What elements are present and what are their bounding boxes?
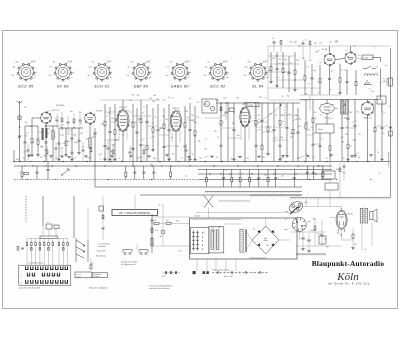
AM antenna transformer box xyxy=(202,99,217,113)
speaker xyxy=(370,209,378,222)
svg-text:2k: 2k xyxy=(142,113,144,115)
string x382 xyxy=(381,100,383,128)
svg-text:30k: 30k xyxy=(86,139,89,141)
svg-text:automatik: automatik xyxy=(98,245,105,248)
cluster labels xyxy=(96,243,111,258)
string x280 xyxy=(279,103,281,121)
svg-text:1k: 1k xyxy=(47,133,49,135)
svg-text:1k: 1k xyxy=(217,137,219,139)
svg-text:Einstellrad: Einstellrad xyxy=(97,250,105,253)
pins oval1 xyxy=(118,130,120,140)
string x287 xyxy=(286,103,288,128)
mid band link wires xyxy=(104,112,382,146)
string x375 xyxy=(374,100,376,128)
svg-text:50p: 50p xyxy=(67,133,70,135)
svg-text:1n: 1n xyxy=(369,89,371,91)
crossing wires to lower section xyxy=(204,196,213,208)
svg-text:10n: 10n xyxy=(50,67,53,69)
svg-text:0,05: 0,05 xyxy=(266,77,269,79)
svg-text:50: 50 xyxy=(181,158,183,160)
svg-text:0,02: 0,02 xyxy=(223,98,226,100)
svg-text:20k: 20k xyxy=(349,112,352,114)
svg-text:0,02: 0,02 xyxy=(222,115,225,117)
svg-text:15p: 15p xyxy=(358,157,361,159)
svg-text:300: 300 xyxy=(79,112,82,114)
svg-text:20k: 20k xyxy=(296,60,299,62)
svg-text:0,1μF: 0,1μF xyxy=(68,61,72,63)
svg-text:8,2k: 8,2k xyxy=(34,72,37,74)
svg-text:30k: 30k xyxy=(340,235,343,237)
svg-text:25p: 25p xyxy=(111,118,114,120)
svg-text:15p: 15p xyxy=(188,72,191,74)
filler strings between buses xyxy=(125,166,324,187)
svg-text:0,02: 0,02 xyxy=(63,143,66,145)
svg-text:5k: 5k xyxy=(188,77,190,79)
svg-text:EABC 80: EABC 80 xyxy=(171,84,189,88)
svg-text:5k: 5k xyxy=(274,141,276,143)
jack xyxy=(364,80,372,85)
svg-text:3n: 3n xyxy=(176,114,178,116)
wire v x74 xyxy=(73,196,75,238)
svg-text:0,5: 0,5 xyxy=(82,147,84,149)
svg-text:50p: 50p xyxy=(232,123,235,125)
svg-text:8,2k: 8,2k xyxy=(60,148,63,150)
wire bus y169 right xyxy=(198,169,332,171)
svg-text:2k: 2k xyxy=(296,115,298,117)
string R2 xyxy=(37,126,39,140)
svg-text:10n: 10n xyxy=(281,175,284,177)
junction dots xyxy=(19,161,368,175)
svg-text:zwischen Punkt und Masse: zwischen Punkt und Masse xyxy=(149,287,170,290)
coil L1 xyxy=(52,131,54,139)
svg-text:0,05: 0,05 xyxy=(52,136,55,138)
svg-text:0,1: 0,1 xyxy=(305,39,307,41)
svg-text:300: 300 xyxy=(305,94,308,96)
svg-text:70p: 70p xyxy=(178,121,181,123)
switch resistor rows xyxy=(26,239,69,266)
svg-text:300: 300 xyxy=(110,151,113,153)
speaker switch xyxy=(363,66,376,69)
core lines xyxy=(244,229,246,252)
svg-text:0,5: 0,5 xyxy=(154,220,156,222)
svg-text:470: 470 xyxy=(148,116,151,118)
chassis hatch y195 right xyxy=(250,194,302,196)
string x298 xyxy=(297,108,299,132)
tube EC92 horizontal oval xyxy=(320,104,335,114)
svg-text:20k: 20k xyxy=(92,62,95,64)
svg-text:150: 150 xyxy=(55,158,58,160)
svg-text:0,5: 0,5 xyxy=(189,98,191,100)
string x293 xyxy=(292,103,294,129)
svg-text:300: 300 xyxy=(313,133,316,135)
svg-text:6,8k: 6,8k xyxy=(245,67,248,69)
svg-text:0,25: 0,25 xyxy=(302,229,305,231)
svg-text:5k: 5k xyxy=(128,67,130,69)
second row boxes xyxy=(31,248,65,251)
output top small parts xyxy=(272,38,317,60)
svg-text:0,1μF: 0,1μF xyxy=(31,61,35,63)
svg-text:100p: 100p xyxy=(353,140,357,142)
scattered leader lines and ticks xyxy=(35,43,388,158)
svg-text:0,05: 0,05 xyxy=(204,75,207,77)
wire y246 lower right xyxy=(296,245,342,247)
tube base diagram EBF 80 xyxy=(127,61,153,88)
svg-text:ZF = 460 kHz(455kHz): ZF = 460 kHz(455kHz) xyxy=(119,211,150,215)
antenna trimmer xyxy=(18,136,21,137)
string C4 xyxy=(71,128,73,138)
wire bridge right xyxy=(279,239,290,241)
wire drops transformer xyxy=(361,224,363,250)
tube base diagram EL 84 xyxy=(244,61,269,88)
svg-text:40p: 40p xyxy=(290,133,293,135)
svg-text:10n: 10n xyxy=(38,241,40,243)
rail drop left xyxy=(267,46,269,100)
oscillator dashed box xyxy=(255,103,285,127)
svg-text:470: 470 xyxy=(326,247,329,249)
svg-text:Selen-: Selen- xyxy=(264,238,269,240)
svg-text:EL 84: EL 84 xyxy=(252,84,263,88)
svg-text:20k: 20k xyxy=(266,245,269,247)
wire bus y179 right xyxy=(198,179,332,181)
svg-text:6,8k: 6,8k xyxy=(178,251,181,253)
wire switch top xyxy=(27,238,68,240)
svg-text:0,1μF: 0,1μF xyxy=(223,61,227,63)
wire right edge x390 xyxy=(390,48,392,198)
svg-text:30k: 30k xyxy=(101,123,104,125)
svg-text:Zuleitung Batterie 6V: Zuleitung Batterie 6V xyxy=(387,152,390,169)
relay box mid right xyxy=(377,96,386,104)
antenna xyxy=(17,101,23,110)
svg-text:150: 150 xyxy=(172,154,175,156)
tube base diagram EABC 80 xyxy=(166,61,191,88)
svg-text:300: 300 xyxy=(160,236,163,238)
string o6 xyxy=(304,60,306,76)
anode wire V1a xyxy=(45,123,47,126)
svg-text:12k: 12k xyxy=(74,157,77,159)
svg-text:40p: 40p xyxy=(218,227,221,229)
svg-text:15p: 15p xyxy=(68,141,71,143)
keying cluster xyxy=(46,224,52,229)
string R3 xyxy=(65,128,67,141)
svg-text:2k: 2k xyxy=(143,107,145,109)
svg-text:70p: 70p xyxy=(302,57,305,59)
svg-text:20k: 20k xyxy=(191,115,194,117)
vibrator transformer box xyxy=(209,227,224,253)
top rail AM xyxy=(216,102,300,104)
svg-text:Relais: Relais xyxy=(336,169,340,171)
svg-text:2n: 2n xyxy=(282,121,284,123)
svg-text:3n: 3n xyxy=(110,72,112,74)
svg-text:300: 300 xyxy=(199,158,202,160)
cable to lamps xyxy=(290,207,300,214)
labels row above bus xyxy=(23,157,361,160)
svg-text:70p: 70p xyxy=(280,137,283,139)
svg-text:25p: 25p xyxy=(198,141,201,143)
svg-text:EBF 80: EBF 80 xyxy=(173,108,181,110)
svg-text:1,5-2000: 1,5-2000 xyxy=(247,105,253,107)
verticals shield box to test row xyxy=(197,259,236,271)
svg-text:250: 250 xyxy=(315,52,318,54)
svg-text:Gemessen mit Röhrenvoltmeter: Gemessen mit Röhrenvoltmeter xyxy=(149,284,173,287)
svg-text:ECH 81: ECH 81 xyxy=(95,84,110,88)
svg-text:20k: 20k xyxy=(178,111,181,113)
wire EL84 top xyxy=(329,46,331,53)
tube EF89 oval xyxy=(240,107,250,127)
svg-text:50p: 50p xyxy=(40,157,43,159)
svg-text:250: 250 xyxy=(137,95,140,97)
svg-text:470: 470 xyxy=(51,241,53,243)
svg-text:5k: 5k xyxy=(344,104,346,106)
svg-text:25: 25 xyxy=(324,239,326,241)
wire between tubes xyxy=(335,59,345,60)
svg-text:30k: 30k xyxy=(343,173,346,175)
svg-text:50: 50 xyxy=(275,115,277,117)
svg-text:100p: 100p xyxy=(194,122,198,124)
svg-text:150: 150 xyxy=(62,241,64,243)
svg-text:1k: 1k xyxy=(205,138,207,140)
tube EBF80 oval xyxy=(171,111,182,132)
svg-text:6,8k: 6,8k xyxy=(112,144,115,146)
svg-text:50p: 50p xyxy=(211,227,214,229)
trimmer C6 xyxy=(94,133,97,134)
alignment pictogram 2 xyxy=(139,250,148,255)
svg-text:Blaupunkt-Autoradio: Blaupunkt-Autoradio xyxy=(312,259,385,268)
tube base diagram ECC 85 xyxy=(12,61,38,88)
svg-text:0,05: 0,05 xyxy=(244,75,247,77)
string o2 xyxy=(276,52,278,68)
parts between connector and EZ xyxy=(310,218,326,246)
svg-text:5n: 5n xyxy=(272,38,274,40)
tube EZ right top xyxy=(345,52,356,63)
svg-text:50: 50 xyxy=(185,175,187,177)
top rail AF xyxy=(300,99,380,101)
svg-text:300: 300 xyxy=(313,219,316,221)
svg-text:15p: 15p xyxy=(343,112,346,114)
svg-text:3n: 3n xyxy=(321,138,323,140)
svg-text:12k: 12k xyxy=(196,117,199,119)
svg-text:0,1: 0,1 xyxy=(32,142,34,144)
svg-text:15p: 15p xyxy=(108,113,111,115)
right edge cap xyxy=(389,127,392,128)
tube V1a ECC85 xyxy=(41,113,52,124)
svg-text:30k: 30k xyxy=(13,67,16,69)
left chain x103 xyxy=(99,196,105,240)
svg-text:150: 150 xyxy=(149,98,152,100)
svg-text:1k: 1k xyxy=(154,117,156,119)
series chain resistors xyxy=(154,222,159,224)
svg-text:15p: 15p xyxy=(204,149,207,151)
svg-text:10n: 10n xyxy=(149,77,152,79)
svg-text:470: 470 xyxy=(354,244,357,246)
svg-text:240: 240 xyxy=(24,107,27,109)
svg-text:Nachgleich im Prüffeld: Nachgleich im Prüffeld xyxy=(121,262,137,264)
svg-text:10n: 10n xyxy=(25,122,28,124)
inner shield line xyxy=(196,212,290,214)
svg-text:Klang: Klang xyxy=(318,129,322,131)
string o11 xyxy=(346,70,348,81)
svg-text:5n: 5n xyxy=(168,97,170,99)
string o4 xyxy=(288,56,290,72)
svg-text:6,8k: 6,8k xyxy=(29,126,32,128)
string o8 xyxy=(319,65,321,78)
svg-text:0,1μF: 0,1μF xyxy=(107,61,111,63)
connector plug xyxy=(292,217,306,231)
string x147 xyxy=(146,104,148,121)
string o1 xyxy=(270,52,272,66)
svg-text:0,1: 0,1 xyxy=(311,127,313,129)
svg-text:12k: 12k xyxy=(127,124,130,126)
wire anode EABC xyxy=(367,115,369,162)
extra dots pass xyxy=(24,161,371,180)
svg-text:50p: 50p xyxy=(160,128,163,130)
tube EABC80 circle right xyxy=(361,102,374,115)
string x348 xyxy=(347,100,349,119)
wire y246 xyxy=(152,245,191,247)
antenna plug xyxy=(18,116,21,119)
chassis hatch y191 xyxy=(205,191,302,193)
svg-text:gelb: gelb xyxy=(285,211,288,213)
svg-text:30p: 30p xyxy=(70,111,73,113)
svg-text:12k: 12k xyxy=(186,117,189,119)
svg-text:300: 300 xyxy=(185,111,188,113)
svg-text:0,5: 0,5 xyxy=(216,157,218,159)
svg-text:6,3V: 6,3V xyxy=(176,221,179,223)
svg-text:10n: 10n xyxy=(166,75,169,77)
resistor R5h xyxy=(24,173,29,175)
svg-text:470: 470 xyxy=(132,95,135,97)
svg-text:0,1: 0,1 xyxy=(171,98,173,100)
svg-text:Kontrollampe: Kontrollampe xyxy=(96,255,106,258)
svg-text:Drucktastenschalter: Drucktastenschalter xyxy=(28,261,43,264)
string x234 xyxy=(233,103,235,129)
svg-text:0,25: 0,25 xyxy=(344,70,347,72)
svg-text:150: 150 xyxy=(197,102,200,104)
svg-text:30k: 30k xyxy=(170,116,173,118)
svg-text:50: 50 xyxy=(106,116,108,118)
svg-text:3n: 3n xyxy=(23,157,25,159)
svg-text:15p: 15p xyxy=(71,72,74,74)
left pair xyxy=(17,247,19,251)
svg-text:2k: 2k xyxy=(343,158,345,160)
svg-text:10n: 10n xyxy=(127,75,130,77)
svg-text:25p: 25p xyxy=(226,72,229,74)
string x256 xyxy=(255,103,257,121)
svg-text:6,8k: 6,8k xyxy=(272,58,275,60)
coil L20 xyxy=(151,238,153,246)
pins oval2 xyxy=(171,130,173,142)
label 0,1-250 box xyxy=(362,55,373,60)
svg-text:2x4: 2x4 xyxy=(166,220,169,222)
wires to bridge xyxy=(244,228,252,240)
string x169 xyxy=(168,104,170,130)
svg-text:10n: 10n xyxy=(264,175,267,177)
svg-text:ECC 82: ECC 82 xyxy=(211,84,226,88)
svg-text:0,5: 0,5 xyxy=(167,67,169,69)
wire bus y161 xyxy=(14,161,390,163)
legend box xyxy=(75,272,92,278)
svg-text:0,1: 0,1 xyxy=(245,125,247,127)
svg-text:8,2k: 8,2k xyxy=(297,158,300,160)
svg-text:a b c d: a b c d xyxy=(77,274,81,276)
svg-text:12k: 12k xyxy=(214,131,217,133)
volume pot xyxy=(305,123,307,129)
svg-text:0,1μF: 0,1μF xyxy=(146,61,150,63)
string x274 xyxy=(273,103,275,129)
AM cluster small parts xyxy=(220,102,234,120)
top rail y100 left xyxy=(100,99,160,101)
string C1 xyxy=(24,126,26,142)
rail output top xyxy=(268,45,352,47)
svg-text:Zündentst.: Zündentst. xyxy=(386,78,389,87)
svg-text:300: 300 xyxy=(216,100,219,102)
svg-text:0,1: 0,1 xyxy=(48,128,50,130)
svg-text:0,25: 0,25 xyxy=(262,157,265,159)
wire bridge top xyxy=(265,218,267,226)
svg-text:5n: 5n xyxy=(122,135,124,137)
svg-text:1n: 1n xyxy=(109,125,111,127)
svg-text:70p: 70p xyxy=(205,67,208,69)
string x133 xyxy=(132,104,134,123)
vibrator Zerhacker box xyxy=(191,214,209,254)
svg-text:20k: 20k xyxy=(67,129,70,131)
wires lower right xyxy=(290,217,353,240)
AF filter stack xyxy=(341,99,348,119)
svg-text:0,25: 0,25 xyxy=(298,126,301,128)
svg-text:470: 470 xyxy=(319,42,322,44)
svg-text:0,25: 0,25 xyxy=(335,41,338,43)
svg-text:50: 50 xyxy=(46,132,48,134)
string x330b xyxy=(329,133,331,146)
svg-text:8,2k: 8,2k xyxy=(203,104,206,106)
svg-text:Innenansicht des abgeschirmten: Innenansicht des abgeschirmten Raumes xyxy=(219,200,250,203)
svg-text:5k: 5k xyxy=(383,112,385,114)
string x190 xyxy=(189,103,191,129)
svg-text:50: 50 xyxy=(359,134,361,136)
FM extra lower parts xyxy=(27,142,92,162)
res string right xyxy=(352,234,354,238)
string o7 xyxy=(311,64,313,78)
string below bus 2 xyxy=(36,166,38,172)
svg-text:470: 470 xyxy=(212,231,215,233)
svg-text:8,2k: 8,2k xyxy=(305,202,308,204)
svg-text:5k: 5k xyxy=(119,158,121,160)
right edge choke box xyxy=(389,78,393,86)
extra value labels pass2 xyxy=(25,41,387,253)
svg-text:87-100MHz: 87-100MHz xyxy=(56,105,64,107)
svg-text:6,3 V: 6,3 V xyxy=(162,276,166,278)
svg-text:40p: 40p xyxy=(335,108,338,110)
string o9 xyxy=(329,65,331,78)
svg-text:5k: 5k xyxy=(258,119,260,121)
wire y219 inside shield xyxy=(191,219,242,221)
svg-text:2n: 2n xyxy=(205,99,207,101)
wire bus y195 xyxy=(140,194,302,196)
svg-text:0,25: 0,25 xyxy=(39,132,42,134)
svg-text:blau: blau xyxy=(308,221,311,223)
svg-text:150: 150 xyxy=(356,111,359,113)
svg-text:3n: 3n xyxy=(365,249,367,251)
svg-text:0,1: 0,1 xyxy=(152,122,154,124)
svg-text:10n: 10n xyxy=(129,100,132,102)
svg-text:0,05: 0,05 xyxy=(237,135,240,137)
wire v x152 xyxy=(151,214,153,253)
string x164 xyxy=(163,108,165,124)
electrolytics xyxy=(301,232,326,252)
svg-text:2k: 2k xyxy=(377,152,379,154)
string x268 xyxy=(267,103,269,127)
svg-text:0,1: 0,1 xyxy=(320,114,322,116)
svg-text:300: 300 xyxy=(162,116,165,118)
